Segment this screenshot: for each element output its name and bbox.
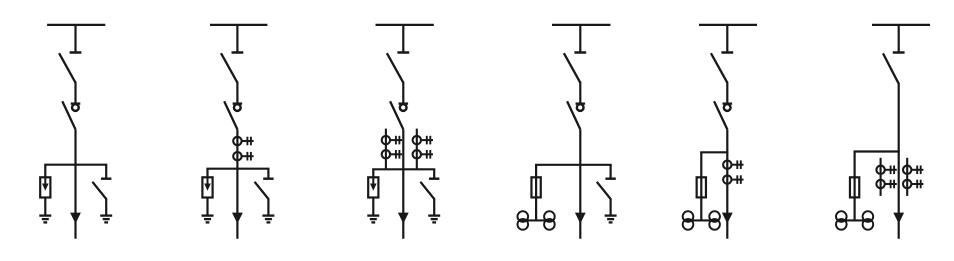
feeder line D5 xyxy=(726,129,728,238)
earthing switch contact QE4 D4 xyxy=(605,177,615,179)
wire FU D4 drop xyxy=(535,165,537,221)
wire D1 xyxy=(74,82,76,104)
wire QE2 D2 drop xyxy=(267,169,269,178)
CT column wire TA D6 right xyxy=(906,158,908,196)
fixed contact bar D2 xyxy=(232,51,244,54)
ground QE1 D1 xyxy=(100,216,112,223)
plug-in contact circle D2 xyxy=(234,104,241,111)
wire FU D4 VT bar xyxy=(523,219,550,221)
current transformer TA D6 right lower xyxy=(903,180,923,189)
plug-in contact circle D3 xyxy=(400,104,407,111)
fixed contact bar D6 xyxy=(893,51,905,54)
fixed contact bar D1 xyxy=(70,51,82,54)
switch-disconnector blade QM D3 xyxy=(390,101,403,129)
feeder line D2 xyxy=(236,129,238,238)
CT column wire TA D6 left xyxy=(880,158,882,196)
contact bar D5 xyxy=(723,102,733,104)
disconnector switch blade QS D1 xyxy=(59,53,75,82)
earthing switch contact QE3 D3 xyxy=(429,177,439,179)
wire FU D6 drop xyxy=(853,152,855,221)
current transformer TA D3 left lower xyxy=(382,150,402,159)
branch wire D3 xyxy=(372,168,435,170)
wire QE3 D3 drop xyxy=(433,169,435,177)
wire D3 xyxy=(402,82,404,104)
ground QE2 D2 xyxy=(262,216,274,223)
busbar W2 xyxy=(210,24,267,26)
current transformer TA D6 left lower xyxy=(876,180,896,189)
wire FU D6 VT bar xyxy=(841,219,868,221)
switch-disconnector blade QM D4 xyxy=(567,101,580,129)
wire F3 D3 drop xyxy=(372,169,374,177)
ground F3 D3 xyxy=(367,216,379,223)
surge arrester F3 D3 xyxy=(368,177,378,197)
wire QE2 D2 to ground xyxy=(267,198,269,215)
current transformer TA2 D2 xyxy=(233,152,253,161)
earthing switch blade QE2 D2 xyxy=(255,182,269,199)
busbar W3 xyxy=(376,24,434,26)
disconnector switch blade QS D6 xyxy=(883,53,899,83)
contact bar D3 xyxy=(399,102,409,104)
contact bar D1 xyxy=(71,102,81,104)
surge arrester F1 D1 xyxy=(40,177,50,197)
current transformer TA D3 right upper xyxy=(413,136,433,145)
feeder arrow D5 xyxy=(722,213,733,224)
wire busbar tap D1 xyxy=(74,25,76,53)
busbar W5 xyxy=(699,24,757,26)
ground QE4 D4 xyxy=(605,216,617,223)
earthing switch contact QE2 D2 xyxy=(263,177,273,179)
wire busbar tap D6 xyxy=(898,25,900,53)
wire QE1 D1 to ground xyxy=(105,198,107,215)
disconnector switch blade QS D4 xyxy=(564,53,580,82)
feeder arrow D6 xyxy=(893,213,904,224)
branch wire D1 xyxy=(44,164,107,166)
voltage transformer FU D6 right xyxy=(863,211,874,230)
current transformer TA D3 left upper xyxy=(382,136,402,145)
surge arrester F2 D2 xyxy=(202,177,212,197)
switch-disconnector blade QM D5 xyxy=(714,101,727,129)
wire QE4 D4 drop xyxy=(609,165,611,178)
fuse FU D4 xyxy=(531,177,540,197)
feeder arrow D3 xyxy=(398,213,409,224)
feeder arrow D1 xyxy=(70,213,81,224)
contact bar D4 xyxy=(576,102,586,104)
ground F2 D2 xyxy=(202,216,214,223)
switch-disconnector blade QM D2 xyxy=(224,101,237,129)
current transformer TA D3 right lower xyxy=(413,150,433,159)
feeder arrow D2 xyxy=(232,213,243,224)
branch wire D6 xyxy=(854,150,900,152)
branch wire D2 xyxy=(206,168,269,170)
feeder arrow D4 xyxy=(575,213,586,224)
switch-disconnector blade QM D1 xyxy=(62,101,75,129)
plug-in contact circle D1 xyxy=(72,104,79,111)
disconnector switch blade QS D5 xyxy=(711,53,727,82)
current transformer TA2 D5 xyxy=(723,175,743,184)
feeder line D4 xyxy=(579,129,581,238)
fuse FU D6 xyxy=(850,177,859,197)
current transformer TA1 D5 xyxy=(723,160,743,169)
wire F1 D1 to ground xyxy=(44,198,46,215)
voltage transformer FU D4 right xyxy=(544,211,555,230)
current transformer TA D6 left upper xyxy=(876,166,896,175)
wire busbar tap D3 xyxy=(402,25,404,53)
voltage transformer FU D5 left xyxy=(683,211,694,230)
wire QE1 D1 drop xyxy=(105,165,107,178)
wire D2 xyxy=(236,82,238,104)
CT column wire TA D3 right xyxy=(416,129,418,170)
fixed contact bar D5 xyxy=(721,51,733,54)
disconnector switch blade QS D2 xyxy=(221,53,237,82)
earthing switch blade QE4 D4 xyxy=(597,182,611,199)
current transformer TA1 D2 xyxy=(233,137,253,146)
wire F2 D2 to ground xyxy=(206,198,208,215)
plug-in contact circle D4 xyxy=(577,104,584,111)
voltage transformer FU D4 left xyxy=(518,211,529,230)
busbar W6 xyxy=(872,24,930,26)
branch wire D5 xyxy=(700,151,728,153)
current transformer TA D6 right upper xyxy=(903,166,923,175)
branch wire D4 xyxy=(535,164,612,166)
feeder line D1 xyxy=(74,129,76,238)
disconnector switch blade QS D3 xyxy=(387,53,403,82)
wire F1 D1 drop xyxy=(44,165,46,178)
voltage transformer FU D5 right xyxy=(709,211,720,230)
wire FU D5 drop xyxy=(700,152,702,220)
wire busbar tap D5 xyxy=(726,25,728,53)
plug-in contact circle D5 xyxy=(724,104,731,111)
wire D4 xyxy=(579,82,581,104)
feeder line D3 xyxy=(402,129,404,238)
fixed contact bar D3 xyxy=(397,51,409,54)
wire busbar tap D4 xyxy=(579,25,581,53)
contact bar D2 xyxy=(233,102,243,104)
busbar W1 xyxy=(47,24,105,26)
wire QE4 D4 to ground xyxy=(609,198,611,215)
voltage transformer FU D6 left xyxy=(836,211,847,230)
wire F2 D2 drop xyxy=(206,169,208,178)
earthing switch blade QE3 D3 xyxy=(420,182,434,199)
CT column wire TA D3 left xyxy=(385,129,387,170)
ground QE3 D3 xyxy=(428,216,440,223)
wire FU D5 VT bar xyxy=(688,219,715,221)
earthing switch blade QE1 D1 xyxy=(92,182,106,199)
fuse FU D5 xyxy=(697,177,706,197)
busbar W4 xyxy=(552,24,611,26)
feeder line D6 xyxy=(898,83,900,239)
earthing switch contact QE1 D1 xyxy=(101,177,111,179)
ground F1 D1 xyxy=(39,216,51,223)
fixed contact bar D4 xyxy=(574,51,586,54)
wire QE3 D3 to ground xyxy=(433,198,435,215)
wire D5 xyxy=(726,82,728,104)
wire F3 D3 to ground xyxy=(372,198,374,215)
wire busbar tap D2 xyxy=(236,25,238,53)
